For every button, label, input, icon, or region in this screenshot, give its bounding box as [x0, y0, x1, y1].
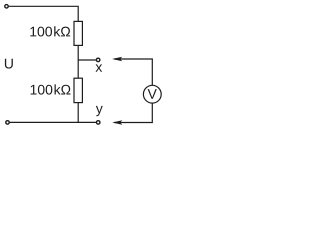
wire R2 bottom to bottom rail	[77, 103, 79, 123]
terminal y	[96, 121, 100, 125]
resistor R2	[74, 78, 82, 102]
wire stub to node x	[78, 59, 96, 61]
wire top rail (terminal to R1)	[9, 6, 78, 21]
label U source voltage	[5, 59, 13, 69]
label node x	[96, 64, 103, 71]
label node y	[96, 106, 103, 116]
terminal top-left	[5, 5, 9, 9]
wire bottom rail	[10, 121, 96, 123]
arrowhead pointing at terminal x	[112, 57, 122, 62]
terminal bottom-left	[6, 121, 10, 125]
label R1 value 100 kΩ	[30, 26, 70, 36]
voltmeter V1 body	[143, 85, 161, 103]
wire R1 bottom to R2 top	[77, 45, 79, 78]
resistor R1	[74, 21, 82, 45]
label R2 value 100 kΩ	[31, 84, 71, 94]
arrowhead pointing at terminal y	[112, 120, 122, 125]
voltmeter bottom lead wire to node y	[114, 103, 152, 122]
terminal x	[96, 58, 100, 62]
voltmeter top lead wire to node x	[114, 59, 152, 85]
voltmeter letter V	[148, 89, 157, 99]
